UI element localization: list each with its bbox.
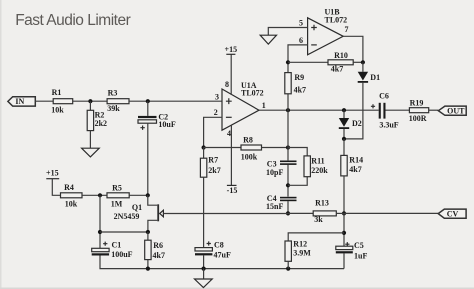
diode D1: [358, 62, 380, 83]
resistor R1: [51, 88, 72, 115]
svg-text:R19: R19: [410, 99, 424, 108]
svg-text:D2: D2: [352, 119, 362, 128]
node M junction: [98, 230, 102, 234]
svg-text:10k: 10k: [51, 106, 64, 115]
svg-text:7: 7: [345, 25, 349, 34]
diode D2: [339, 110, 362, 139]
svg-text:C1: C1: [112, 240, 122, 249]
resistor R7: [200, 148, 220, 178]
svg-text:-15: -15: [227, 186, 238, 195]
wire node A down to R2: [89, 101, 91, 110]
wire R10 to D1 line: [353, 61, 363, 63]
svg-text:OUT: OUT: [447, 107, 465, 116]
svg-text:R8: R8: [243, 136, 253, 145]
svg-text:1M: 1M: [111, 199, 123, 208]
svg-text:39k: 39k: [107, 104, 120, 113]
svg-text:CV: CV: [447, 209, 459, 218]
node E junction (C3 bottom): [286, 183, 290, 187]
svg-text:100uF: 100uF: [111, 250, 132, 259]
node N junction (source): [146, 230, 150, 234]
svg-text:R5: R5: [112, 184, 122, 193]
wire pin7 output down: [343, 36, 363, 62]
wire R12 to rail: [287, 261, 289, 268]
capacitor C4: [266, 194, 297, 211]
capacitor C8: [195, 240, 231, 259]
node R12 rail junction: [286, 267, 290, 271]
resistor R9: [285, 62, 306, 94]
connector CV: [438, 209, 466, 218]
wire R4 to node K: [82, 194, 107, 196]
wire node J to CV: [344, 212, 438, 214]
svg-text:1uF: 1uF: [354, 251, 367, 260]
node O junction (R12/C5): [342, 231, 346, 235]
wire node C to R8: [204, 147, 241, 149]
svg-text:10k: 10k: [65, 199, 78, 208]
wire R19 to OUT: [429, 109, 439, 111]
node J junction: [342, 211, 346, 215]
resistor R6: [145, 232, 165, 260]
svg-text:R4: R4: [64, 183, 74, 192]
+15 terminal bottom left: [46, 168, 60, 195]
svg-text:2: 2: [214, 108, 218, 117]
wire R14 to node J: [343, 176, 345, 214]
capacitor C2: [138, 113, 176, 130]
capacitor C1: [92, 240, 133, 259]
node C junction: [202, 145, 206, 149]
wire R5 to drain node: [129, 194, 148, 196]
svg-text:+15: +15: [225, 45, 238, 54]
wire C4 to node F: [287, 201, 289, 213]
wire U1A output main net: [259, 109, 379, 111]
svg-text:47uF: 47uF: [214, 250, 231, 259]
svg-text:R10: R10: [334, 51, 348, 60]
resistor R14: [341, 139, 363, 176]
svg-text:TL072: TL072: [325, 15, 348, 24]
node F junction (CV net): [286, 211, 290, 215]
node B junction: [146, 99, 150, 103]
wire node J down to C5: [343, 213, 345, 246]
svg-text:3k: 3k: [314, 215, 323, 224]
resistor R2: [87, 110, 107, 130]
junction D2 anode node: [342, 108, 346, 112]
node D junction: [286, 145, 290, 149]
svg-text:+15: +15: [46, 168, 59, 177]
svg-text:TL072: TL072: [241, 89, 264, 98]
svg-text:R1: R1: [52, 88, 62, 97]
ground below C8: [195, 269, 213, 288]
resistor R19: [409, 99, 429, 123]
pin 8 wire and label: [230, 54, 232, 95]
svg-text:C5: C5: [354, 241, 364, 250]
connector OUT: [438, 106, 466, 115]
wire pin2 to node C: [204, 117, 222, 147]
node K junction: [98, 193, 102, 197]
svg-text:R12: R12: [293, 240, 307, 249]
op-amp U1A: [222, 81, 264, 130]
node R6 rail junction: [146, 267, 150, 271]
svg-text:2N5459: 2N5459: [114, 212, 140, 221]
node I junction: [342, 137, 346, 141]
wire C1 line from node K: [99, 195, 101, 248]
wire pin6 to node G: [288, 45, 308, 62]
wire C2 to Q1 drain node: [147, 123, 149, 195]
wire R6 to rail: [147, 260, 149, 269]
resistor R4: [61, 183, 83, 208]
svg-text:6: 6: [299, 36, 303, 45]
svg-text:5: 5: [299, 19, 303, 28]
wire R12 branch: [288, 233, 344, 241]
connector IN: [8, 97, 35, 107]
wire R7 down to C8: [203, 177, 205, 247]
node C8 rail junction: [202, 267, 206, 271]
svg-text:3.3uF: 3.3uF: [379, 120, 398, 129]
-15 terminal below U1A: [227, 185, 238, 194]
svg-text:8: 8: [225, 80, 229, 89]
svg-text:2k7: 2k7: [208, 166, 220, 175]
wire C5 to rail end: [343, 253, 345, 268]
wire R8 to node D: [262, 147, 289, 149]
svg-text:D1: D1: [370, 73, 380, 82]
svg-text:R14: R14: [349, 155, 363, 164]
svg-text:C8: C8: [214, 240, 224, 249]
wire R3 to node B: [129, 100, 222, 102]
wire C6 to R19: [386, 109, 410, 111]
node L junction (drain): [146, 193, 150, 197]
node A junction: [88, 99, 92, 103]
svg-text:R11: R11: [311, 156, 324, 165]
svg-text:4k7: 4k7: [349, 165, 361, 174]
wire R13 to node J: [336, 212, 344, 214]
wire R2 to ground: [89, 131, 91, 149]
svg-text:R9: R9: [294, 73, 304, 82]
wire R1 to node A: [73, 100, 107, 102]
node H junction: [361, 60, 365, 64]
resistor R5: [107, 184, 129, 209]
svg-text:R3: R3: [108, 88, 118, 97]
svg-text:Q1: Q1: [132, 203, 142, 212]
node G junction: [286, 60, 290, 64]
wire IN to R1: [35, 100, 53, 102]
wire source net: [100, 231, 148, 233]
svg-text:2k2: 2k2: [95, 119, 107, 128]
wire C1 to rail: [100, 256, 344, 269]
svg-text:3.9M: 3.9M: [293, 248, 311, 257]
resistor R12: [285, 240, 311, 262]
svg-text:R7: R7: [208, 156, 218, 165]
capacitor C3: [266, 159, 297, 177]
ground at U1B pin5: [260, 35, 276, 44]
transistor Q1: [114, 195, 288, 232]
pin 4 wire and label: [230, 125, 232, 185]
svg-text:4: 4: [227, 129, 231, 138]
wire node B down to C2: [147, 101, 149, 116]
svg-text:R13: R13: [315, 198, 329, 207]
svg-text:C6: C6: [379, 92, 389, 101]
+15 terminal above U1A: [225, 45, 238, 55]
svg-text:4k7: 4k7: [153, 251, 165, 260]
resistor R13: [288, 198, 336, 224]
svg-text:100k: 100k: [241, 152, 258, 161]
op-amp U1B: [308, 7, 348, 55]
svg-text:3: 3: [215, 92, 219, 101]
ground below R2: [82, 148, 100, 157]
resistor R11 parallel loop: [288, 148, 328, 186]
svg-text:IN: IN: [15, 97, 24, 106]
svg-text:Fast Audio Limiter: Fast Audio Limiter: [15, 12, 130, 29]
resistor R10: [328, 51, 353, 73]
capacitor C6: [371, 92, 399, 130]
capacitor C5: [336, 241, 368, 260]
junction output node: [286, 108, 290, 112]
wire node G to R10: [288, 61, 328, 63]
svg-text:220k: 220k: [311, 166, 328, 175]
svg-text:100R: 100R: [409, 114, 427, 123]
vertical node line R9 to C4: [287, 94, 289, 197]
wire C8 to rail: [203, 255, 205, 268]
svg-text:R6: R6: [153, 241, 163, 250]
wire pin5 to ground: [268, 28, 307, 36]
svg-text:15nF: 15nF: [266, 202, 283, 211]
svg-text:4k7: 4k7: [294, 86, 306, 95]
svg-text:4k7: 4k7: [331, 64, 343, 73]
svg-text:10uF: 10uF: [158, 120, 175, 129]
svg-text:1: 1: [262, 101, 266, 110]
resistor R8: [241, 136, 262, 162]
svg-text:10pF: 10pF: [266, 168, 283, 177]
resistor R3: [107, 88, 129, 113]
wire D1 cathode down to node I: [344, 83, 363, 139]
